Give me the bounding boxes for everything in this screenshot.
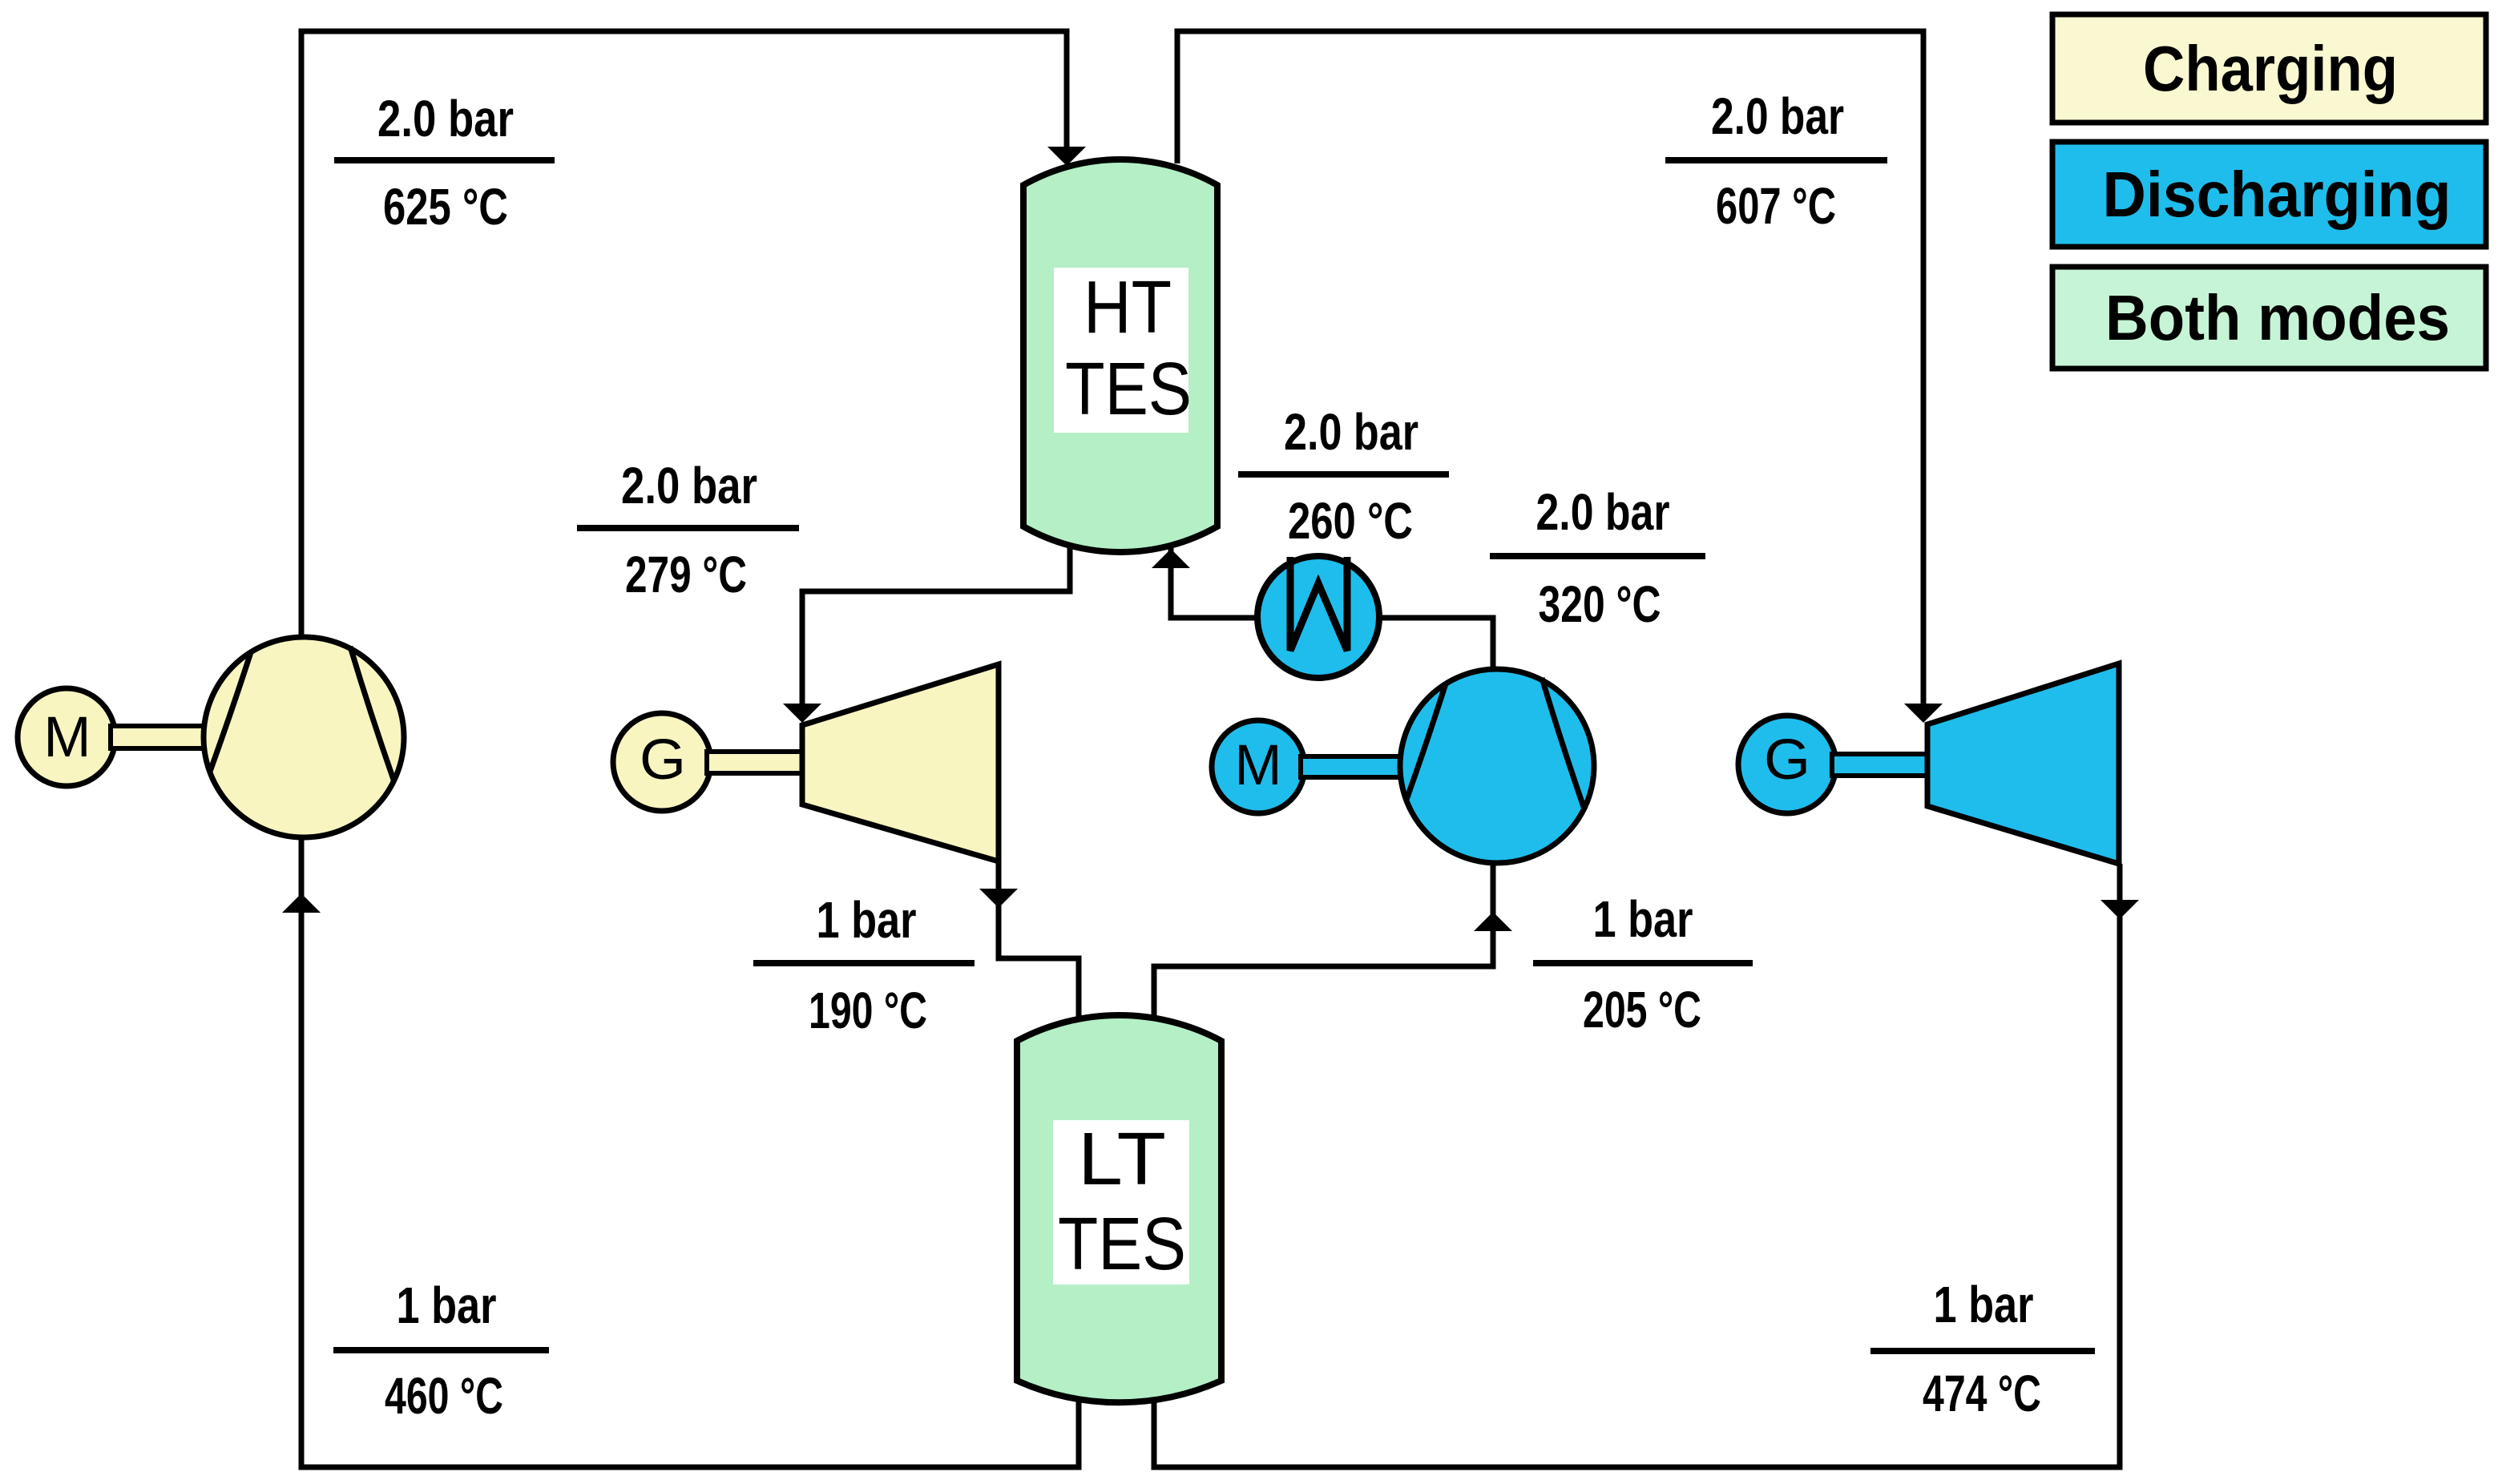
legend box: Charging bbox=[2052, 14, 2486, 123]
wire discharging: HT TES top-right to turbine T2 inlet bbox=[1177, 31, 1923, 720]
turbine T2 (discharging) bbox=[1927, 663, 2119, 864]
tank LT TES label plate bbox=[1053, 1120, 1189, 1284]
shaft G2 to T2 bbox=[1832, 754, 1927, 776]
svg-text:1 bar: 1 bar bbox=[817, 891, 917, 949]
generator G1 (charging) bbox=[613, 713, 711, 811]
node label: 2.0 bar / 607 C (turbine T2 inlet) bbox=[1665, 87, 1887, 235]
motor M1 (charging) bbox=[18, 688, 115, 786]
generator G1 body bbox=[613, 713, 711, 811]
fraction line of node label 1 bar / 190 C (turbine T1 exhaust) bbox=[753, 960, 975, 966]
svg-text:LT: LT bbox=[1078, 1117, 1166, 1200]
legend box: Both modes bbox=[2052, 267, 2486, 369]
wire charging: turbine T1 exhaust to LT TES top-left bbox=[999, 861, 1079, 1018]
svg-text:2.0 bar: 2.0 bar bbox=[1536, 483, 1670, 541]
node label: 2.0 bar / 625 C (compressor C1 outlet) bbox=[334, 90, 555, 236]
svg-text:M: M bbox=[43, 706, 91, 769]
wire discharging: heat exchanger HX left side to HT TES bottom-right bbox=[1171, 548, 1262, 618]
compressor C2 right blade line bbox=[1542, 678, 1584, 807]
turbine T1 (charging) bbox=[802, 664, 999, 861]
compressor C1 right blade line bbox=[350, 647, 393, 780]
svg-text:Discharging: Discharging bbox=[2103, 159, 2452, 230]
svg-text:Both modes: Both modes bbox=[2105, 282, 2450, 353]
svg-text:1 bar: 1 bar bbox=[1593, 890, 1693, 948]
generator G2 (discharging) bbox=[1738, 716, 1836, 813]
tank HT TES vessel shell bbox=[1023, 159, 1217, 552]
fraction line of node label 2.0 bar / 607 C (turbine T2 inlet) bbox=[1665, 157, 1887, 163]
generator G2 body bbox=[1738, 716, 1836, 813]
svg-text:205 °C: 205 °C bbox=[1583, 981, 1701, 1038]
fraction line of node label 2.0 bar / 320 C (compressor C2 outlet) bbox=[1490, 553, 1705, 559]
svg-text:460 °C: 460 °C bbox=[385, 1367, 503, 1425]
wire discharging: LT TES top-right to compressor C2 suction bbox=[1154, 861, 1493, 1018]
arrow into HT TES top-left (down) bbox=[1047, 147, 1086, 166]
svg-text:279 °C: 279 °C bbox=[625, 546, 747, 603]
svg-text:1 bar: 1 bar bbox=[397, 1276, 497, 1334]
legend swatch box: Both modes bbox=[2052, 267, 2486, 369]
tank LT TES (both modes) bbox=[1017, 1015, 1221, 1402]
node label: 1 bar / 474 C (turbine T2 exhaust) bbox=[1870, 1276, 2095, 1422]
compressor C1 left blade line bbox=[210, 652, 251, 772]
fraction line of node label 2.0 bar / 625 C (compressor C1 outlet) bbox=[334, 157, 555, 163]
heat exchanger HX body bbox=[1257, 556, 1379, 678]
tank HT TES label plate bbox=[1054, 268, 1188, 433]
node label: 2.0 bar / 260 C (HX outlet) bbox=[1238, 403, 1449, 550]
wire charging: LT TES bottom-left to compressor C1 suction bbox=[301, 836, 1079, 1467]
node label: 2.0 bar / 320 C (compressor C2 outlet) bbox=[1490, 483, 1705, 633]
svg-text:Charging: Charging bbox=[2143, 33, 2398, 104]
svg-text:TES: TES bbox=[1065, 347, 1192, 430]
motor M2 (discharging) bbox=[1212, 720, 1305, 813]
fraction line of node label 1 bar / 474 C (turbine T2 exhaust) bbox=[1870, 1348, 2095, 1354]
shaft M1 to C1 bbox=[111, 726, 208, 748]
svg-text:HT: HT bbox=[1084, 265, 1172, 349]
wire discharging: compressor C2 discharge to heat exchanger HX right side bbox=[1374, 618, 1493, 673]
arrow into turbine T1 inlet (down) bbox=[783, 704, 821, 723]
node label: 1 bar / 190 C (turbine T1 exhaust) bbox=[753, 891, 975, 1039]
node label: 2.0 bar / 279 C (turbine T1 inlet) bbox=[577, 457, 799, 603]
svg-text:TES: TES bbox=[1058, 1202, 1186, 1285]
node label: 1 bar / 205 C (compressor C2 suction) bbox=[1533, 890, 1753, 1038]
shaft G1 to T1 bbox=[707, 752, 802, 773]
motor M2 body bbox=[1212, 720, 1305, 813]
legend box: Discharging bbox=[2052, 142, 2486, 247]
wire charging: compressor C1 discharge to HT TES top-left bbox=[301, 31, 1067, 637]
svg-text:607 °C: 607 °C bbox=[1716, 177, 1836, 235]
arrow on T1 exhaust (down) bbox=[979, 889, 1018, 908]
fraction line of node label 1 bar / 460 C (compressor C1 suction) bbox=[333, 1347, 549, 1353]
svg-text:2.0 bar: 2.0 bar bbox=[1284, 403, 1418, 461]
compressor C2 (discharging) bbox=[1400, 669, 1594, 863]
svg-text:625 °C: 625 °C bbox=[383, 178, 508, 236]
heat exchanger HX (discharging) bbox=[1257, 556, 1379, 678]
fraction line of node label 1 bar / 205 C (compressor C2 suction) bbox=[1533, 960, 1753, 966]
svg-text:G: G bbox=[640, 728, 686, 792]
fraction line of node label 2.0 bar / 279 C (turbine T1 inlet) bbox=[577, 525, 799, 531]
svg-text:M: M bbox=[1234, 734, 1281, 797]
svg-text:190 °C: 190 °C bbox=[809, 982, 927, 1039]
svg-text:G: G bbox=[1764, 728, 1810, 792]
compressor C1 body bbox=[204, 637, 404, 837]
compressor C2 left blade line bbox=[1406, 684, 1446, 800]
svg-text:1 bar: 1 bar bbox=[1934, 1276, 2034, 1333]
svg-text:2.0 bar: 2.0 bar bbox=[621, 457, 757, 514]
arrow into compressor C2 suction (up) bbox=[1474, 912, 1512, 931]
shaft M2 to C2 bbox=[1301, 756, 1402, 777]
arrow into compressor C1 suction (up) bbox=[282, 893, 321, 913]
svg-text:474 °C: 474 °C bbox=[1923, 1365, 2041, 1422]
compressor C2 body bbox=[1400, 669, 1594, 863]
legend swatch box: Charging bbox=[2052, 14, 2486, 123]
arrow into turbine T2 inlet (down) bbox=[1904, 704, 1943, 723]
wire discharging: turbine T2 exhaust to LT TES bottom-right bbox=[1154, 864, 2120, 1467]
tank HT TES (both modes) bbox=[1023, 159, 1217, 552]
svg-text:2.0 bar: 2.0 bar bbox=[1711, 87, 1844, 145]
svg-text:320 °C: 320 °C bbox=[1539, 575, 1661, 633]
wire charging: HT TES bottom-left to turbine T1 inlet bbox=[802, 545, 1070, 720]
svg-text:260 °C: 260 °C bbox=[1288, 492, 1413, 550]
node label: 1 bar / 460 C (compressor C1 suction) bbox=[333, 1276, 549, 1425]
motor M1 body bbox=[18, 688, 115, 786]
tank LT TES vessel shell bbox=[1017, 1015, 1221, 1402]
arrow into HT TES bottom-right (up) bbox=[1152, 549, 1190, 568]
compressor C1 (charging) bbox=[204, 637, 404, 837]
svg-text:2.0 bar: 2.0 bar bbox=[377, 90, 514, 147]
legend swatch box: Discharging bbox=[2052, 142, 2486, 247]
heat exchanger HX zigzag coil bbox=[1290, 557, 1347, 651]
fraction line of node label 2.0 bar / 260 C (HX outlet) bbox=[1238, 471, 1449, 478]
arrow on T2 exhaust (down) bbox=[2100, 900, 2139, 919]
